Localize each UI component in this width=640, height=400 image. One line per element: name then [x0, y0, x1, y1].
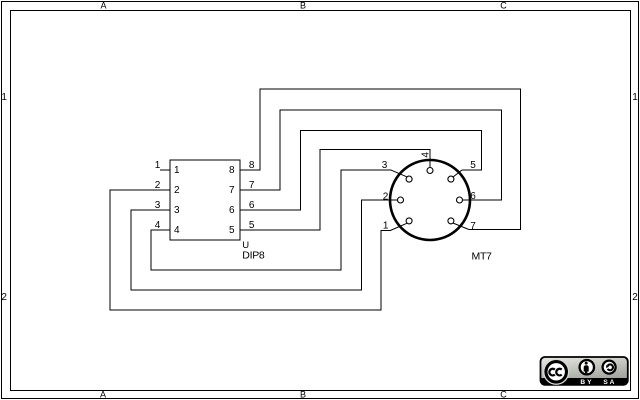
wire DIP pin8 to MT7 pin7	[240, 89, 521, 230]
svg-text:BY: BY	[580, 379, 593, 386]
svg-text:1: 1	[383, 221, 389, 232]
wire DIP pin3 to MT7 pin2	[131, 200, 397, 290]
svg-text:2: 2	[174, 185, 180, 196]
SA icon arrow head	[606, 365, 609, 368]
wire DIP pin4 to MT7 pin3	[151, 170, 391, 270]
svg-text:1: 1	[1, 92, 7, 103]
svg-text:SA: SA	[603, 379, 616, 386]
wire diagonal into MT7 pin5	[453, 170, 462, 177]
svg-text:5: 5	[470, 160, 476, 171]
connector MT7 body circle	[390, 160, 470, 240]
svg-text:8: 8	[249, 160, 255, 171]
CC logo halo	[543, 359, 569, 385]
svg-text:A: A	[100, 0, 106, 10]
MT7 pin hole 1	[406, 218, 412, 224]
svg-text:6: 6	[249, 200, 255, 211]
CC logo ring	[544, 360, 568, 384]
MT7 pin hole 3	[406, 176, 412, 182]
svg-text:1: 1	[155, 160, 161, 171]
svg-text:6: 6	[470, 191, 476, 202]
BY icon person head	[585, 362, 588, 365]
svg-text:7: 7	[470, 221, 476, 232]
svg-text:C: C	[500, 390, 507, 400]
wire DIP pin6 to MT7 pin5	[240, 131, 482, 211]
license badge CC BY-SA plate	[541, 357, 628, 385]
MT7 pin hole 4	[427, 168, 433, 174]
MT7 pin hole 5	[448, 176, 454, 182]
svg-text:DIP8: DIP8	[242, 250, 265, 262]
svg-text:A: A	[100, 390, 106, 400]
svg-text:4: 4	[421, 152, 432, 158]
svg-text:3: 3	[382, 160, 388, 171]
svg-text:7: 7	[229, 185, 235, 196]
svg-text:C: C	[500, 0, 507, 10]
svg-text:MT7: MT7	[472, 250, 493, 262]
wire diagonal into MT7 pin1	[390, 223, 407, 230]
wire diagonal into MT7 pin7	[453, 223, 469, 229]
svg-text:4: 4	[155, 220, 161, 231]
svg-text:8: 8	[229, 165, 235, 176]
svg-text:2: 2	[632, 292, 638, 303]
wire DIP pin7 to MT7 pin6	[240, 110, 502, 200]
svg-text:7: 7	[249, 180, 255, 191]
svg-text:2: 2	[155, 180, 161, 191]
svg-text:5: 5	[229, 225, 235, 236]
svg-text:3: 3	[155, 200, 161, 211]
svg-text:6: 6	[229, 205, 235, 216]
svg-text:4: 4	[174, 225, 180, 236]
MT7 pin hole 7	[448, 218, 454, 224]
wire DIP pin2 to MT7 pin1	[110, 190, 390, 310]
svg-text:1: 1	[632, 92, 638, 103]
svg-text:2: 2	[1, 292, 7, 303]
svg-text:B: B	[300, 390, 306, 400]
MT7 pin hole 6	[457, 197, 463, 203]
wire diagonal into MT7 pin3	[391, 170, 407, 177]
MT7 pin hole 2	[398, 197, 404, 203]
svg-text:5: 5	[249, 220, 255, 231]
SA icon circle	[603, 361, 616, 374]
BY icon circle	[580, 360, 594, 374]
pin 1 stub (unconnected)	[160, 169, 170, 171]
svg-text:B: B	[300, 0, 306, 10]
svg-text:1: 1	[174, 165, 180, 176]
svg-text:2: 2	[383, 191, 389, 202]
CC logo inner disc	[548, 363, 565, 380]
wire DIP pin5 to MT7 pin4	[240, 150, 430, 231]
SA icon arrow arc	[608, 364, 613, 370]
CC logo letters	[549, 369, 554, 376]
BY icon person body	[584, 365, 589, 373]
license badge black strip	[541, 378, 628, 385]
svg-text:3: 3	[174, 205, 180, 216]
IC U1 DIP8 body	[170, 160, 240, 240]
